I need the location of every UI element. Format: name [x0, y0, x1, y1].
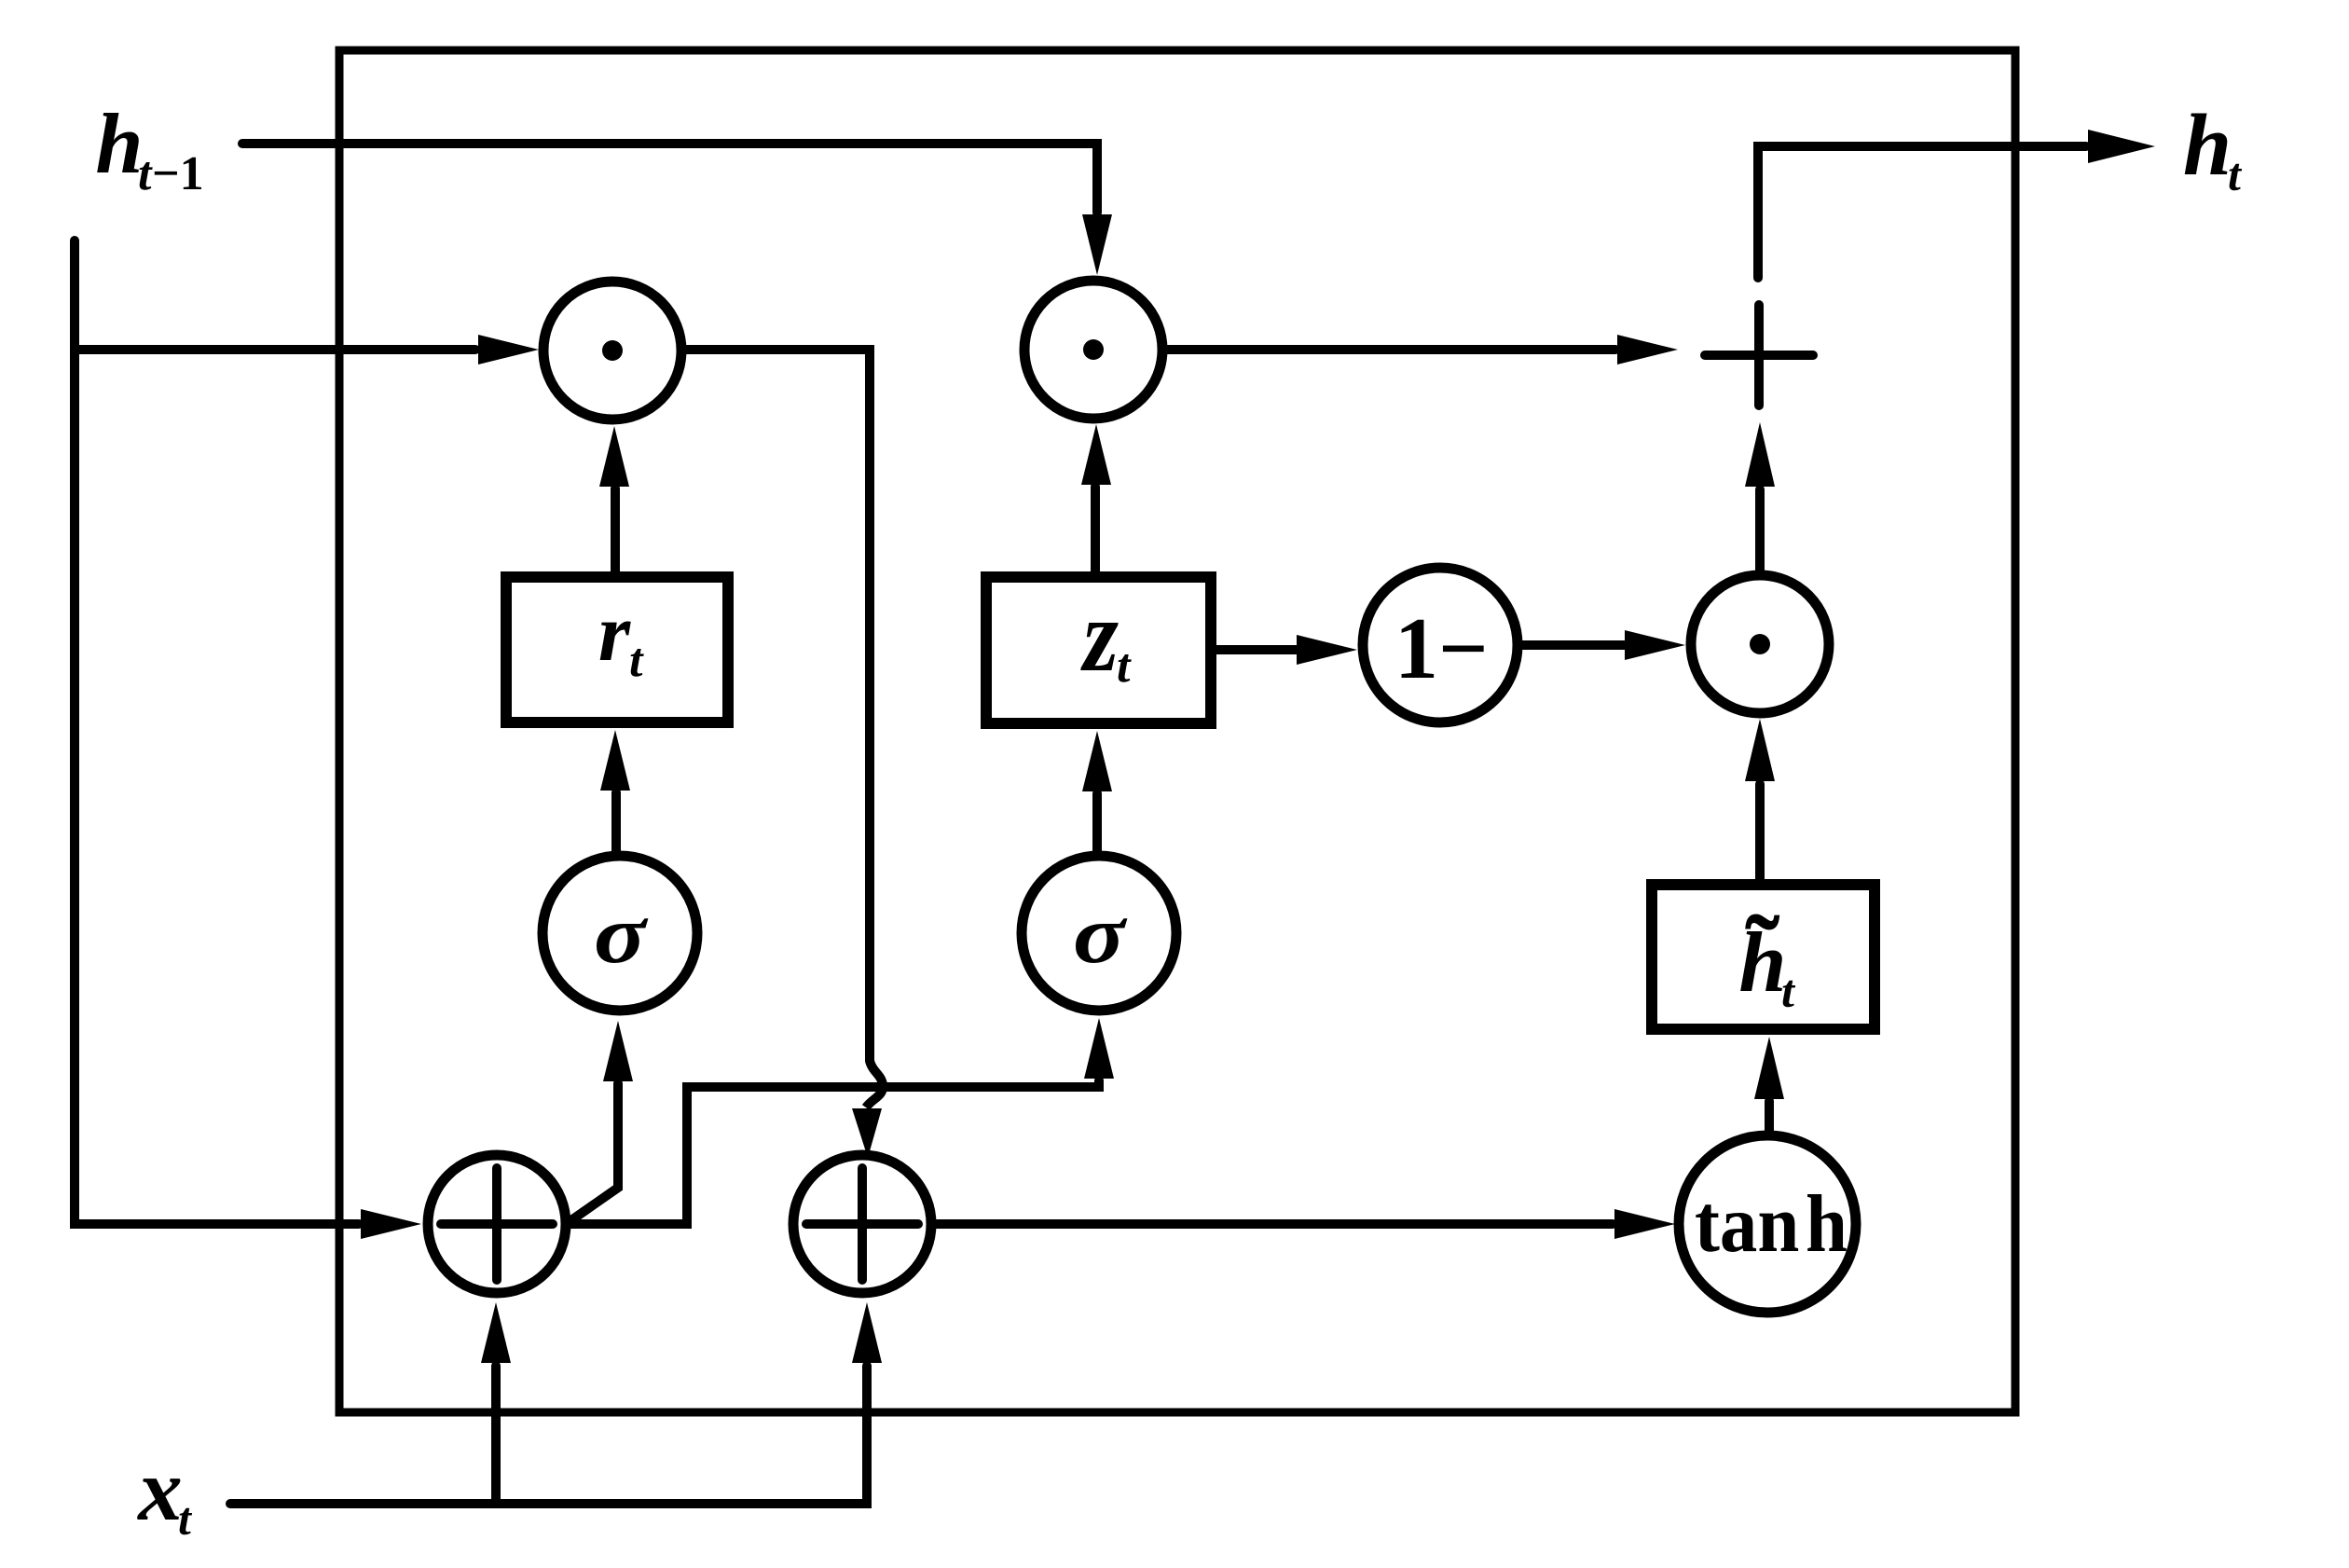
svg-text:z: z [1079, 579, 1119, 694]
svg-text:h: h [95, 96, 143, 191]
svg-text:tan h: tan h [1695, 1179, 1848, 1270]
svg-text:σ: σ [594, 889, 650, 981]
svg-text:t: t [138, 147, 153, 200]
svg-text:t: t [1781, 965, 1796, 1017]
svg-text:r: r [598, 588, 631, 679]
svg-text:h: h [2183, 97, 2232, 194]
svg-text:t: t [629, 634, 644, 687]
svg-text:σ: σ [1073, 889, 1129, 981]
svg-text:x: x [136, 1440, 183, 1539]
svg-text:˜: ˜ [1745, 895, 1780, 1011]
svg-text:−1: −1 [152, 147, 204, 200]
svg-text:1−: 1− [1394, 600, 1489, 697]
svg-text:t: t [1117, 640, 1132, 693]
svg-text:t: t [2228, 148, 2243, 200]
svg-text:t: t [178, 1492, 193, 1545]
